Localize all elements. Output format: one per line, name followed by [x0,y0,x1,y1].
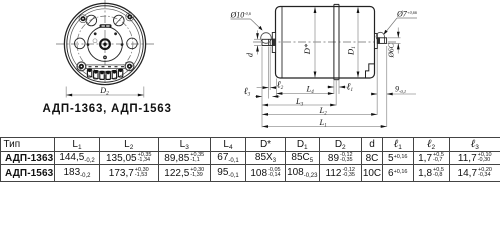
bottom-left lug [77,62,86,71]
svg-text:ℓ3: ℓ3 [244,87,251,98]
l3 dimension [255,96,280,98]
svg-text:L4: L4 [306,84,315,96]
bolt circle (dash-dot) [77,16,133,72]
l2 dimension [257,47,277,99]
inner end-bell circle [88,27,123,62]
screw bottom-right [125,62,133,70]
L1 dimension [262,126,387,128]
screw bottom-left [77,62,85,70]
nameplate [100,24,112,27]
terminal bar [86,65,125,69]
right shaft [377,38,386,44]
left spigot circle [261,33,272,44]
face edge dot right [121,43,124,46]
l1 dimension [327,80,347,94]
D* dimension [314,7,316,78]
svg-text:L2: L2 [319,105,328,117]
face screw left [94,32,97,35]
D2 dimension [66,87,144,98]
bottom-right step detail [366,64,375,78]
motor second circle [67,6,143,82]
L3 dimension [262,47,336,128]
9 dimension [371,46,416,127]
svg-text:ℓ2: ℓ2 [277,81,284,92]
svg-text:L1: L1 [319,117,327,129]
screw top-left [79,15,87,23]
svg-text:Ø10-0,6: Ø10-0,6 [230,11,252,20]
D1 dimension [357,7,359,78]
mounting band [334,4,339,79]
left shaft washer [273,39,276,46]
mounting hole right [127,38,138,49]
flange joint line [281,7,283,78]
terminals [87,69,122,79]
diameter 10 annotation [230,11,263,31]
face edge dot left [87,43,90,46]
svg-text:Ø7+0,66: Ø7+0,66 [396,10,418,19]
shaft hub [100,39,110,49]
svg-text:L3: L3 [295,96,304,108]
caption [43,103,172,115]
svg-text:D1: D1 [346,46,358,56]
d dimension [254,30,262,54]
svg-text:D2: D2 [99,86,109,96]
mounting hole left [75,38,86,49]
motor third circle [70,9,140,79]
face screw bottom [103,56,107,60]
dimension table [0,137,500,182]
diameter 6C dimension [388,28,401,54]
L4 dimension [276,79,334,96]
svg-text:9-0,1: 9-0,1 [395,85,406,96]
left shaft groove [268,39,270,45]
svg-text:ℓ1: ℓ1 [347,83,353,94]
svg-text:Ø6C: Ø6C [387,42,396,58]
small hole left of hub [93,39,97,43]
right shaft collar [377,37,380,44]
mounting hole top-left [86,15,97,26]
front view horizontal centerline [56,43,154,45]
right shaft groove [383,38,385,44]
bottom-right lug [125,62,134,71]
diameter 7 annotation [384,10,418,35]
right collar arc [376,32,384,40]
face screw right [114,32,117,35]
svg-text:d: d [246,52,255,57]
motor body outline [276,7,375,79]
right bearing boss [375,34,378,49]
motor outer circle [64,3,145,84]
side view centerline [253,41,398,43]
screw top-right [126,13,134,21]
mounting hole top-right [114,15,125,26]
front view vertical centerline [56,0,154,86]
left shaft [262,39,272,45]
L2 dimension [262,113,377,115]
left bearing boss [272,33,275,53]
svg-text:D*: D* [302,43,312,55]
